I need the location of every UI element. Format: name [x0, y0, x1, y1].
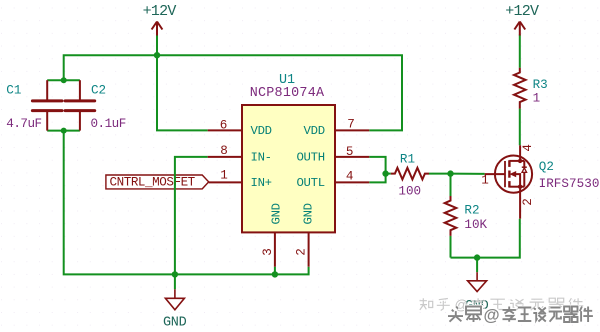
- svg-text:OUTL: OUTL: [296, 176, 324, 190]
- svg-text:GND: GND: [269, 203, 283, 224]
- svg-text:OUTH: OUTH: [296, 151, 324, 165]
- svg-text:+12V: +12V: [505, 3, 539, 20]
- svg-text:Q2: Q2: [539, 160, 554, 174]
- svg-text:@: @: [484, 307, 500, 325]
- svg-text:4: 4: [346, 169, 354, 183]
- svg-text:+12V: +12V: [143, 3, 177, 20]
- svg-text:4: 4: [521, 144, 535, 152]
- svg-text:IN-: IN-: [251, 151, 272, 165]
- svg-text:R1: R1: [400, 153, 415, 167]
- svg-text:1: 1: [220, 169, 228, 183]
- svg-text:2: 2: [521, 198, 535, 206]
- svg-text:8: 8: [220, 144, 228, 158]
- svg-text:C2: C2: [91, 84, 106, 98]
- svg-text:CNTRL_MOSFET: CNTRL_MOSFET: [110, 176, 196, 190]
- svg-text:3: 3: [261, 248, 275, 256]
- svg-text:5: 5: [346, 145, 354, 159]
- svg-text:0.1uF: 0.1uF: [91, 117, 126, 131]
- svg-text:100: 100: [398, 184, 421, 198]
- svg-text:VDD: VDD: [251, 124, 272, 138]
- svg-text:GND: GND: [301, 203, 315, 224]
- svg-text:NCP81074A: NCP81074A: [250, 86, 325, 101]
- svg-text:GND: GND: [163, 316, 187, 331]
- svg-text:4.7uF: 4.7uF: [6, 117, 41, 131]
- svg-text:1: 1: [481, 174, 489, 188]
- svg-text:IN+: IN+: [251, 176, 272, 190]
- svg-text:R3: R3: [533, 78, 548, 92]
- svg-text:1: 1: [533, 91, 540, 105]
- svg-text:10K: 10K: [464, 218, 487, 232]
- svg-text:IRFS7530: IRFS7530: [539, 177, 600, 191]
- svg-text:7: 7: [347, 118, 355, 132]
- svg-text:C1: C1: [6, 84, 21, 98]
- svg-text:6: 6: [220, 119, 228, 133]
- svg-text:2: 2: [295, 248, 309, 256]
- svg-text:VDD: VDD: [304, 124, 325, 138]
- svg-text:R2: R2: [464, 203, 479, 217]
